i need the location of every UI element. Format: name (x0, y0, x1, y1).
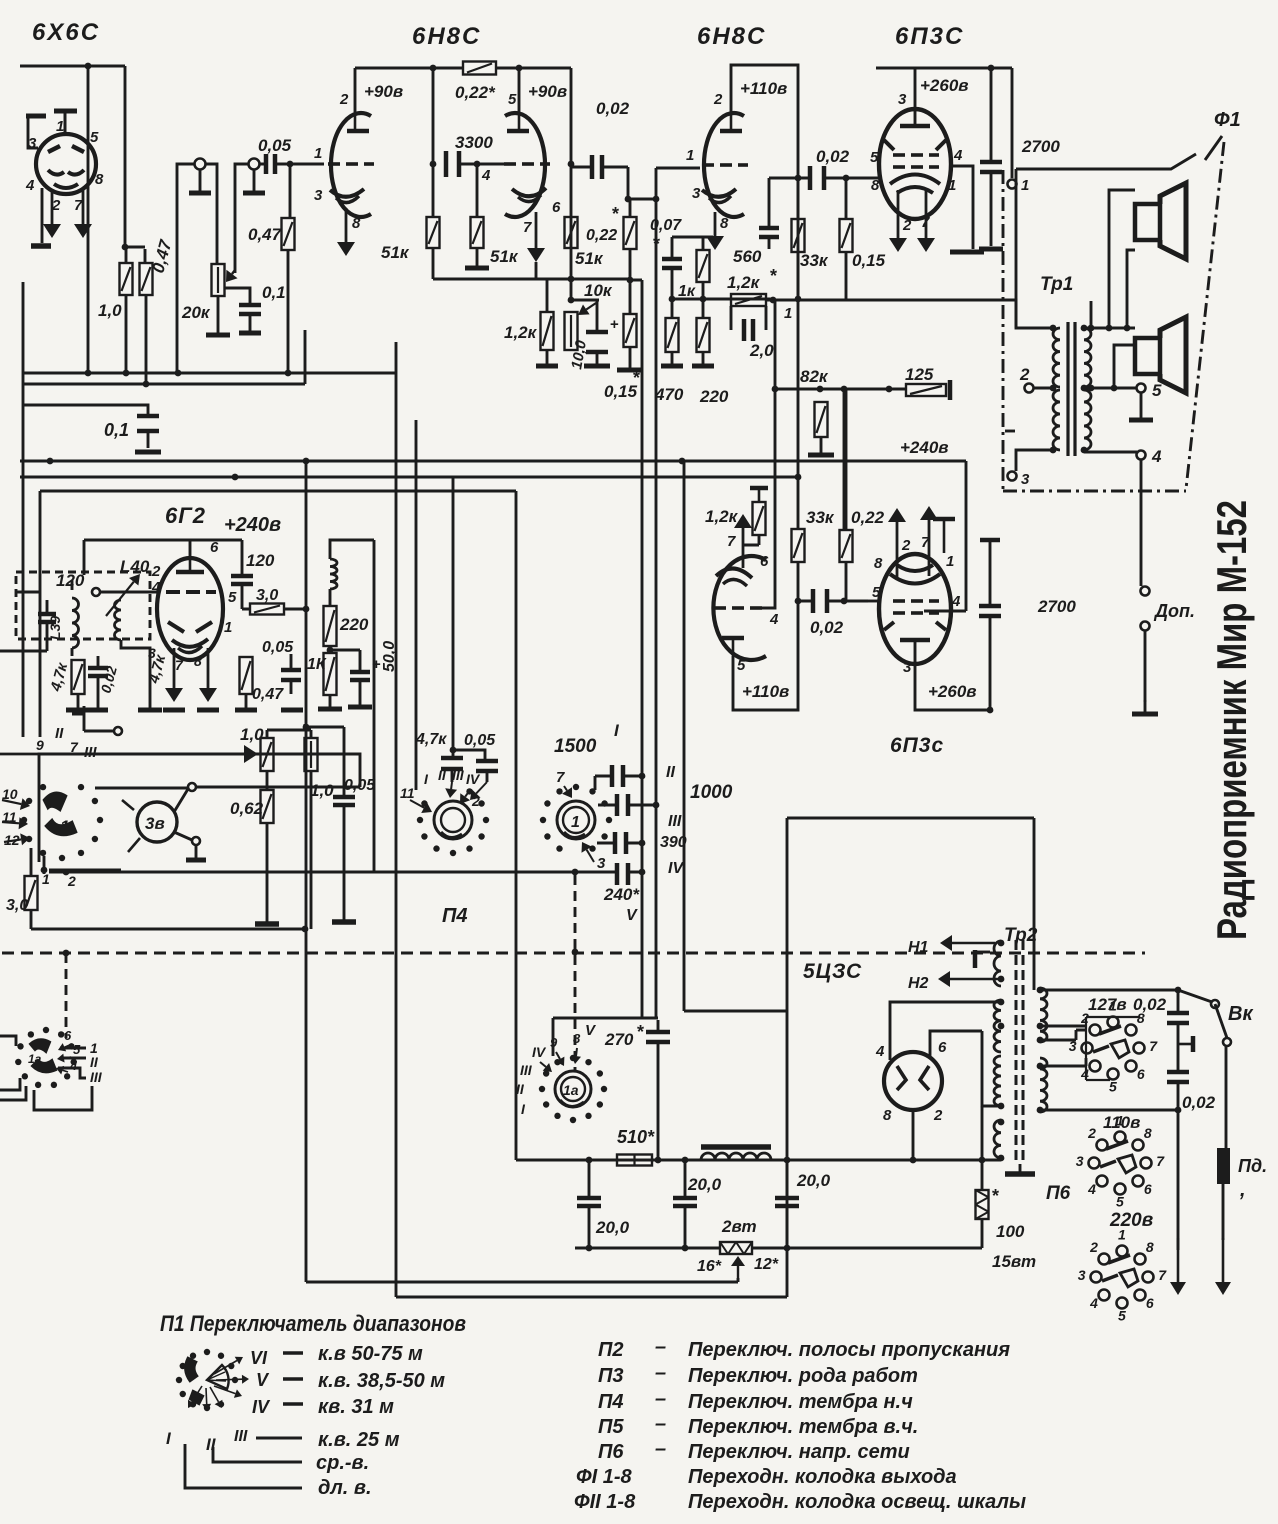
wire grid left (100, 591, 157, 594)
coil L39 (72, 598, 79, 648)
capacitor 10,0 (586, 316, 619, 352)
wire speaker1 return (1127, 250, 1135, 328)
junction (669, 296, 707, 303)
lamp legs (128, 838, 140, 852)
switch П5а rotor notch (560, 1100, 584, 1107)
switch П5 rotor notch (564, 832, 585, 838)
junctions (795, 598, 802, 605)
junctions (795, 474, 802, 481)
heater arrow pin2 (889, 190, 907, 252)
wire П3 pin1 down (43, 856, 46, 874)
resistor 0,47 (140, 263, 153, 295)
ground bar (31, 243, 51, 249)
wire 1,2k to cath (743, 535, 759, 545)
svg-text:0,02: 0,02 (810, 618, 844, 637)
Тр1 primary winding lower (1053, 390, 1060, 450)
wire 33k2 (797, 562, 800, 601)
svg-text:+110в: +110в (740, 79, 787, 98)
wire grid pin5 (844, 177, 880, 180)
svg-text:20,0: 20,0 (687, 1175, 722, 1194)
svg-text:*: * (992, 1186, 999, 1206)
tube V3b anode (722, 636, 744, 641)
svg-text:7: 7 (727, 533, 736, 550)
svg-text:120: 120 (56, 571, 85, 590)
svg-text:5: 5 (228, 589, 237, 606)
switch П1 dot ring (176, 1349, 238, 1411)
capacitor 50,0 (350, 656, 381, 680)
wire 0,15 (845, 178, 848, 299)
wire y300 to right (766, 300, 1053, 328)
tube V3a anode (720, 129, 742, 134)
svg-text:5: 5 (508, 91, 517, 108)
connector pin 3 (1008, 472, 1017, 481)
junctions (817, 386, 893, 393)
wire box bottom (49, 869, 121, 872)
svg-text:3,0: 3,0 (256, 587, 278, 604)
switch П3а rotor (30, 1039, 50, 1052)
wire 510 leads (589, 1159, 658, 1162)
svg-text:1: 1 (686, 147, 694, 164)
dashed line П5 link y953 (2, 952, 1145, 955)
resistor 3,0 (25, 876, 38, 910)
svg-text:1а: 1а (28, 1052, 42, 1066)
connector Ф1 pin 1 (1008, 180, 1017, 189)
pos arrow (56, 1066, 68, 1075)
svg-text:IV: IV (252, 1397, 271, 1417)
svg-text:,: , (1239, 1179, 1246, 1201)
svg-text:Ф1: Ф1 (1214, 109, 1241, 131)
svg-text:V: V (256, 1370, 270, 1390)
svg-text:8: 8 (1144, 1125, 1152, 1141)
svg-text:51к: 51к (381, 243, 410, 262)
svg-text:0,05: 0,05 (258, 136, 292, 155)
resistor 33к (792, 529, 805, 562)
svg-text:Переключ. рода работ: Переключ. рода работ (688, 1365, 918, 1387)
svg-text:к.в 50-75 м: к.в 50-75 м (318, 1343, 423, 1365)
svg-text:560: 560 (733, 247, 762, 266)
terminal (92, 588, 100, 596)
wire cathode (912, 1110, 915, 1160)
svg-text:3300: 3300 (455, 133, 493, 152)
П1 spoke III (210, 1387, 222, 1408)
switch П1 rotor fan (207, 1365, 229, 1389)
resistor 82к (815, 402, 828, 437)
wire fb vertical x775 (774, 300, 777, 477)
heater arrow pin7 (917, 188, 935, 252)
junction (568, 161, 575, 283)
svg-text:–: – (655, 1336, 666, 1358)
svg-text:–: – (655, 1388, 666, 1410)
wire grid stub (656, 167, 700, 170)
wire R bottoms (126, 295, 146, 384)
svg-text:VI: VI (250, 1348, 268, 1368)
junctions (47, 458, 686, 465)
ground (808, 437, 834, 455)
wire x787 down (786, 818, 789, 1297)
ground (661, 352, 683, 366)
Тр2 mains winding lower (1040, 1058, 1047, 1112)
wire +110V loop (731, 65, 798, 178)
wire 0,22 top (629, 199, 632, 217)
dashed box L40 (16, 572, 150, 639)
switch П4 rotor notch (441, 832, 462, 838)
svg-text:0,47: 0,47 (252, 686, 284, 703)
wire bottom y1297 (396, 1296, 787, 1299)
svg-text:2,0: 2,0 (749, 341, 774, 360)
resistor 125 end bar (948, 380, 953, 400)
svg-text:0,22: 0,22 (851, 508, 885, 527)
junction (303, 724, 310, 731)
svg-text:127в: 127в (1088, 995, 1127, 1014)
tube V2b 6Н8С triode envelope (505, 113, 545, 217)
ground (235, 694, 257, 710)
wire cap feed (451, 477, 485, 761)
pin1 top bar (933, 517, 955, 522)
svg-text:дл. в.: дл. в. (318, 1477, 372, 1499)
pos arrow (540, 1062, 552, 1072)
wire 0,15 top (629, 249, 632, 314)
wire resistor tops (125, 247, 145, 263)
П1 spoke II (202, 1388, 211, 1411)
lamp contact (192, 837, 200, 845)
svg-text:20,0: 20,0 (796, 1171, 831, 1190)
tube V4 cathode (897, 187, 933, 193)
tube V4 screen dashes (893, 153, 905, 157)
junctions (1088, 325, 1131, 332)
svg-text:Радиоприемник Мир М-152: Радиоприемник Мир М-152 (1208, 500, 1255, 940)
pos arrow (556, 1052, 565, 1066)
switch П3 shield box (39, 754, 360, 862)
svg-text:II: II (90, 1054, 99, 1070)
svg-text:0,02: 0,02 (596, 99, 630, 118)
tube V5 beam plates (884, 622, 894, 630)
resistor 1,0 (120, 263, 133, 295)
wire 50,0 (330, 650, 360, 705)
svg-text:33к: 33к (800, 251, 829, 270)
wire primary mid tap (1034, 387, 1053, 390)
tube V1 6Х6С envelope (36, 134, 96, 194)
svg-text:1: 1 (946, 553, 954, 570)
wire bus y491 (40, 490, 516, 493)
junctions (639, 773, 660, 876)
wire vert x416 (415, 420, 418, 790)
cathode arrow up (734, 514, 752, 568)
wire box left (0, 580, 72, 656)
svg-text:0,47: 0,47 (248, 225, 283, 244)
capacitor 0,05 (333, 797, 355, 805)
ground (206, 296, 230, 335)
dash (283, 1351, 303, 1354)
svg-text:11: 11 (400, 785, 415, 801)
svg-text:кв. 31 м: кв. 31 м (318, 1396, 394, 1418)
svg-text:3: 3 (314, 187, 323, 204)
svg-text:+110в: +110в (742, 682, 789, 701)
svg-text:1,2к: 1,2к (705, 507, 739, 526)
wire П3а frame (34, 1086, 92, 1110)
wire tap b (1040, 1030, 1086, 1040)
wire plate up (189, 540, 192, 559)
switch П5а dot ring (539, 1055, 607, 1123)
junction (327, 647, 334, 654)
feed arrow (4, 833, 30, 845)
svg-text:1,2к: 1,2к (727, 273, 761, 292)
П1 spoke IV (214, 1386, 242, 1398)
wire П3а taps (58, 1048, 86, 1078)
wire band bus II (630, 280, 642, 1018)
tube V6 diode plates (168, 622, 184, 632)
junction (85, 63, 92, 70)
junction (988, 65, 995, 72)
resistor 0,22* (463, 62, 496, 75)
svg-text:–: – (655, 1413, 666, 1435)
wire anode to rail (518, 68, 521, 112)
resistor 1,2к* (731, 294, 766, 306)
capacitor 0,1 (239, 305, 261, 314)
wire coil to 220 (329, 589, 332, 606)
ground (536, 350, 558, 366)
svg-text:*: * (653, 234, 660, 254)
wire 0,02 a (1177, 990, 1180, 1044)
switch Вк contact (1223, 1038, 1231, 1046)
svg-text:+90в: +90в (528, 82, 567, 101)
line ср-в (213, 1447, 302, 1462)
wire y299 line (672, 298, 773, 301)
switch П1 rotor pawl (190, 1391, 203, 1404)
inductor др (330, 559, 337, 589)
svg-text:5: 5 (90, 129, 99, 146)
svg-text:9: 9 (36, 737, 44, 753)
svg-text:4: 4 (951, 593, 961, 610)
terminal (114, 727, 122, 735)
transformer Тр1 core (1066, 322, 1069, 456)
junction (430, 161, 437, 168)
svg-text:1: 1 (784, 305, 792, 322)
tube V4 anode (900, 124, 930, 129)
wire tap c (1040, 1058, 1086, 1066)
chain line boundary left (1002, 170, 1005, 489)
capacitor 0,02 (592, 155, 602, 179)
svg-text:6: 6 (1146, 1295, 1154, 1311)
wire fb tap (1090, 301, 1093, 328)
svg-text:2: 2 (933, 1107, 943, 1124)
Тр2 terminals left (998, 940, 1005, 1162)
svg-text:4: 4 (769, 611, 779, 628)
ground bar (255, 921, 279, 927)
capacitor 2700 (979, 606, 1001, 616)
svg-text:III: III (520, 1062, 533, 1078)
ground bar (348, 705, 372, 710)
svg-text:6П3С: 6П3С (895, 23, 964, 50)
tube V4 6П3С envelope (879, 109, 951, 219)
svg-text:7: 7 (556, 769, 565, 786)
feed arrow (2, 817, 28, 829)
heater bar (973, 950, 978, 968)
potentiometer 2Вт (720, 1242, 752, 1254)
feed arrow (2, 798, 30, 810)
svg-text:6Г2: 6Г2 (165, 503, 206, 528)
heater arrow up (888, 508, 906, 578)
svg-text:220: 220 (339, 615, 369, 634)
tube V5 grid dashes (893, 611, 905, 615)
svg-text:IV: IV (532, 1044, 547, 1060)
svg-text:1: 1 (224, 619, 232, 636)
capacitor (612, 765, 623, 787)
wire 0,02 leads (798, 600, 868, 603)
svg-text:к.в. 25 м: к.в. 25 м (318, 1429, 400, 1451)
choke winding (701, 1153, 771, 1160)
wire lamp wiring (174, 787, 360, 858)
svg-text:IV: IV (668, 860, 684, 877)
capacitor 240* (617, 863, 628, 885)
wire grid2 right (762, 476, 775, 608)
capacitor 0,02 (813, 589, 827, 613)
svg-text:8: 8 (95, 171, 104, 188)
svg-text:5: 5 (872, 584, 881, 601)
junction (572, 949, 579, 956)
tube V3a 6Н8С triode envelope (704, 113, 744, 217)
capacitor 20,0 (673, 1198, 697, 1206)
wire cap120 (46, 600, 49, 638)
connector П6 position 127В (1069, 998, 1159, 1095)
svg-text:3: 3 (903, 659, 912, 676)
svg-text:8: 8 (194, 653, 202, 669)
wire bus y405 (22, 405, 148, 416)
junction (303, 606, 310, 613)
wire +110 loop bottom (733, 601, 798, 710)
svg-text:1: 1 (571, 814, 580, 831)
tube V6 grid dashes (166, 590, 180, 594)
svg-text:6: 6 (552, 199, 561, 216)
svg-text:П1 Переключатель диапазонов: П1 Переключатель диапазонов (160, 1311, 466, 1336)
wire 3,0 leads (284, 608, 306, 611)
wire left col x40 (39, 491, 42, 737)
wire 1k down (329, 695, 332, 707)
wire coupling 0,02 (798, 177, 880, 180)
chain line boundary diagonal (1186, 142, 1224, 489)
svg-text:III: III (668, 813, 682, 830)
svg-text:3: 3 (1078, 1267, 1086, 1283)
svg-text:II: II (666, 764, 675, 781)
svg-text:16*: 16* (697, 1258, 722, 1275)
svg-text:7: 7 (175, 657, 184, 673)
svg-text:7: 7 (1149, 1038, 1158, 1054)
svg-text:+240в: +240в (900, 438, 949, 457)
resistor 0,15* (624, 314, 637, 347)
pot arrow (578, 303, 596, 315)
svg-text:1: 1 (60, 817, 69, 836)
wire speaker1 feed (1109, 190, 1135, 328)
switch Вк contact (1211, 1000, 1219, 1008)
tube V7 filament (897, 1066, 906, 1090)
wire bus y384 (22, 330, 305, 384)
wire cap IV (597, 842, 642, 845)
wire top bus (20, 65, 125, 68)
wire 0,05 (306, 727, 344, 920)
ground bar (163, 708, 185, 713)
svg-text:IV: IV (466, 771, 481, 787)
svg-text:III: III (90, 1069, 103, 1085)
svg-text:1,0: 1,0 (310, 781, 334, 800)
svg-text:V: V (626, 907, 638, 924)
tube V5 anode (900, 638, 930, 643)
wire box path (553, 1018, 658, 1056)
svg-text:270: 270 (604, 1030, 634, 1049)
wire terminal1 left (177, 164, 195, 373)
П1 spoke V (216, 1375, 249, 1384)
cathode arrow (706, 212, 724, 250)
svg-text:2700: 2700 (1037, 597, 1076, 616)
cathode ground bar (950, 250, 984, 255)
resistor 0,47 (240, 657, 253, 694)
wire +260 rail right (1011, 68, 1014, 178)
svg-text:Переходн. колодка выхода: Переходн. колодка выхода (688, 1466, 957, 1488)
wire y929 (31, 928, 305, 931)
switch Вк fixed contact (1189, 1043, 1191, 1045)
switch П5 rotor inner (563, 807, 589, 833)
svg-text:4: 4 (875, 1043, 885, 1060)
wire 51k down (432, 248, 435, 279)
svg-text:1: 1 (56, 118, 64, 135)
wire cap C (588, 1160, 591, 1248)
svg-text:51к: 51к (490, 247, 519, 266)
ground (1129, 392, 1153, 420)
wire grid leak (290, 164, 324, 218)
arrow Н1 (940, 935, 995, 951)
capacitor 0,05 (281, 670, 301, 680)
cathode arrow pin 8 (337, 208, 355, 256)
mains lead arrow (1170, 1238, 1186, 1295)
wire x516 long (515, 491, 518, 1160)
svg-text:100: 100 (996, 1222, 1025, 1241)
svg-text:Н2: Н2 (908, 975, 929, 992)
junction (63, 950, 70, 957)
tube V2a anode (347, 129, 369, 134)
wire cap 0,07 (672, 237, 713, 299)
connector Доп (1141, 587, 1150, 596)
coil L40 (115, 600, 122, 640)
wire cap B (786, 1160, 789, 1248)
cathode arrow (165, 648, 183, 702)
wire 0,05 up (290, 654, 293, 694)
resistor 1,2к (541, 312, 554, 350)
resistor 220 (697, 318, 710, 352)
svg-text:6Х6С: 6Х6С (32, 19, 100, 46)
svg-text:Пд.: Пд. (1238, 1156, 1267, 1176)
wire box to mains (787, 818, 1034, 990)
line III (256, 1437, 302, 1440)
svg-text:470: 470 (654, 385, 684, 404)
wire fuse down (1222, 1184, 1225, 1240)
transformer Тр2 core (1015, 940, 1018, 1164)
ground (465, 248, 489, 268)
svg-text:4: 4 (1089, 1295, 1098, 1311)
wire 2700-2 top (989, 540, 992, 604)
tube V2a grid dashes (328, 162, 340, 166)
ground bar (197, 708, 219, 713)
svg-text:240*: 240* (603, 885, 640, 904)
svg-text:L40: L40 (120, 557, 150, 576)
capacitor (476, 761, 498, 771)
pos arrow (410, 800, 432, 813)
terminal (195, 159, 206, 170)
ground bar (332, 919, 356, 925)
wire 1,0 mid (266, 771, 269, 790)
potentiometer 20к (212, 264, 225, 296)
wire x433 plate-grid (432, 68, 435, 217)
svg-text:8: 8 (720, 215, 729, 232)
svg-text:П3: П3 (598, 1365, 624, 1387)
svg-text:0,07: 0,07 (650, 217, 682, 234)
